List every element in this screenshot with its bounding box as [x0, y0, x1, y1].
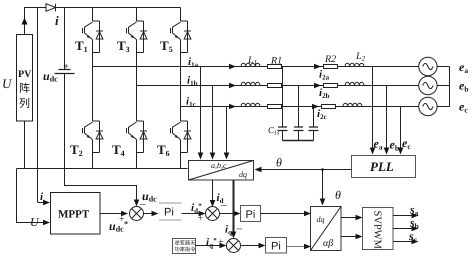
svg-text:功率指令: 功率指令: [175, 246, 197, 253]
block MPPT: [51, 193, 101, 235]
wire J1 to Pi1: [144, 213, 152, 215]
svg-text:dq: dq: [317, 215, 325, 224]
wire MPPT to J1: [100, 213, 123, 215]
block SVPWM: [363, 208, 394, 250]
transistor T4: [127, 121, 147, 153]
source ec: [419, 97, 437, 115]
block reactive power command: [173, 239, 196, 254]
wire PV negative lead: [24, 121, 26, 169]
node arrow i2a: [314, 64, 321, 70]
wire DC- bottom bus: [17, 168, 188, 170]
svg-text:+: +: [218, 237, 224, 248]
wire udc sense: [65, 169, 137, 201]
node theta branch: [321, 168, 324, 171]
block abc/dq transform: [189, 161, 254, 181]
block Pi2: [241, 206, 261, 222]
wire J3 to Pi3: [241, 245, 259, 247]
transistor T3: [127, 21, 147, 53]
wire sa out: [393, 215, 412, 217]
wire Pi3 to dq/ab: [287, 246, 305, 248]
svg-text:MPPT: MPPT: [58, 209, 90, 221]
resistor R2c: [322, 105, 336, 109]
inductor L1a: [241, 63, 260, 66]
wire theta PLL to abc/dq: [261, 169, 352, 171]
node arrow i2c: [312, 104, 319, 110]
svg-text:逆变器无: 逆变器无: [175, 240, 196, 247]
svg-text:+: +: [64, 61, 69, 71]
wire i1b sense tap: [212, 86, 214, 153]
wire eb sense tap: [386, 86, 388, 148]
svg-text:R1: R1: [270, 56, 282, 67]
node arrow i1a: [229, 64, 236, 70]
svg-text:PLL: PLL: [370, 159, 394, 174]
node arrow i2b: [314, 83, 321, 89]
svg-text:Pi: Pi: [271, 240, 281, 252]
svg-text:列: 列: [19, 97, 30, 110]
svg-text:U: U: [30, 215, 40, 229]
resistor R2b: [324, 84, 338, 88]
svg-text:R2: R2: [324, 54, 336, 65]
wire cap common bus: [283, 140, 314, 142]
svg-text:Pi: Pi: [164, 207, 174, 219]
wire id from abc/dq: [212, 180, 214, 201]
svg-text:–: –: [236, 223, 243, 235]
wire sc out: [393, 241, 412, 243]
wire phase c line: [181, 106, 419, 108]
node arrow i1b: [229, 83, 236, 89]
diode D (blocking diode): [46, 4, 56, 12]
resistor R1c: [268, 105, 282, 109]
wire filter cap branch b: [298, 86, 300, 141]
svg-text:U: U: [2, 76, 13, 91]
wire ea sense tap: [372, 67, 374, 148]
capacitor C1s plates: [278, 127, 319, 131]
block PLL: [352, 156, 416, 178]
wire sb out: [393, 228, 412, 230]
inductor L2c: [343, 103, 362, 106]
node MPPT i input arrow: [43, 200, 50, 206]
wire top DC+ bus: [25, 8, 181, 35]
wire DC link capacitor branch: [64, 8, 66, 169]
wire phase a line: [93, 66, 419, 68]
wire dq/ab to SVPWM lower: [341, 236, 356, 238]
wire sense U to MPPT: [17, 169, 44, 223]
capacitor Cdc plates: [55, 70, 75, 74]
wire i1a sense tap: [200, 67, 202, 153]
transistor T2: [83, 121, 103, 153]
svg-text:a,b,c: a,b,c: [211, 161, 227, 170]
arrow current i on PV positive lead: [22, 18, 28, 25]
node arrow i1c: [229, 104, 236, 110]
leg B vertical wire: [136, 8, 138, 169]
resistor R1a: [268, 65, 282, 69]
svg-text:θ: θ: [276, 156, 282, 170]
svg-text:–: –: [220, 199, 227, 211]
inductor L1b: [241, 82, 260, 85]
svg-text:+: +: [119, 214, 125, 225]
wire iq from abc/dq (thick): [233, 180, 235, 232]
wire filter cap branch c: [313, 107, 315, 141]
svg-text:θ: θ: [335, 188, 341, 202]
inductor L2a: [345, 63, 364, 66]
svg-text:+: +: [198, 213, 204, 224]
svg-text:Pi: Pi: [246, 209, 256, 221]
svg-text:i: i: [55, 13, 59, 28]
junction J1: [130, 207, 144, 221]
resistor R1b: [268, 84, 282, 88]
block Pi1: [159, 203, 182, 220]
wire sense i to MPPT: [38, 8, 44, 203]
wire Pi2 to dq/ab: [261, 213, 305, 215]
leg A vertical wire: [92, 8, 94, 169]
wire J2 to Pi2: [220, 213, 235, 215]
wire theta to dq/ab: [322, 170, 324, 200]
leg C vertical wire: [180, 8, 182, 169]
block dq/ab transform: [311, 207, 342, 251]
svg-text:阵: 阵: [19, 82, 30, 95]
transistor T1: [83, 21, 103, 53]
junction J2: [206, 207, 220, 221]
svg-text:PV: PV: [18, 69, 32, 80]
transistor T5: [171, 21, 191, 53]
resistor R2a: [324, 65, 338, 69]
node MPPT U input arrow: [43, 220, 50, 226]
block Pi3: [266, 238, 287, 254]
wire phase b line: [137, 85, 419, 87]
source ea: [419, 57, 437, 75]
svg-text:SVPWM: SVPWM: [372, 211, 383, 250]
PV array box: [17, 35, 33, 122]
source eb: [419, 76, 437, 94]
wire dq/ab to SVPWM upper: [341, 217, 356, 219]
svg-text:αβ: αβ: [323, 238, 333, 249]
wire command to J3: [196, 245, 220, 247]
wire grid neutral: [437, 67, 449, 107]
inductor L1c: [241, 103, 260, 106]
transistor T6: [171, 121, 191, 153]
wire ec sense tap: [400, 107, 402, 148]
wire Pi1 to J2: [182, 213, 199, 215]
svg-text:dq: dq: [239, 170, 247, 179]
inductor L2b: [345, 82, 364, 85]
wire i1c sense tap: [226, 107, 228, 153]
wire filter cap branch a: [282, 67, 284, 141]
junction J3: [227, 239, 241, 253]
